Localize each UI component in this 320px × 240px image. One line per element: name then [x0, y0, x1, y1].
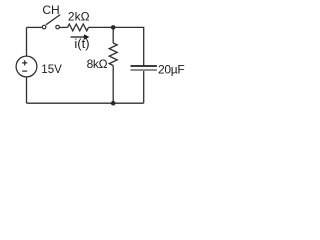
- bottom wire: [27, 102, 144, 104]
- current arrow i(t) head: [84, 34, 90, 39]
- middle branch top lead: [112, 27, 114, 43]
- source plus sign: [22, 60, 27, 65]
- wire resistor to top-right corner, down to capacitor top plate: [89, 27, 144, 65]
- left wire above source: [26, 27, 28, 56]
- left wire below source: [26, 77, 28, 104]
- resistor 2kOhm zigzag: [68, 24, 89, 31]
- svg-text:15V: 15V: [41, 64, 62, 76]
- capacitor bottom plate: [131, 69, 157, 71]
- current arrow i(t) shaft: [71, 36, 85, 38]
- voltage source circle: [16, 56, 37, 77]
- svg-text:CH: CH: [42, 3, 59, 17]
- svg-text:8kΩ: 8kΩ: [87, 57, 108, 71]
- source minus sign: [22, 70, 27, 72]
- wire capacitor bottom plate to bottom-right corner: [143, 71, 145, 103]
- switch contact left: [42, 25, 46, 29]
- capacitor top plate: [131, 65, 157, 67]
- wire top-left corner to switch left contact: [27, 26, 43, 28]
- svg-text:i(t): i(t): [74, 36, 89, 51]
- svg-text:2kΩ: 2kΩ: [68, 9, 90, 23]
- junction dot bottom node: [111, 101, 116, 106]
- resistor 8kOhm zigzag: [109, 43, 117, 66]
- middle branch bottom lead: [112, 66, 114, 104]
- switch contact right: [56, 25, 60, 29]
- wire switch right contact to resistor R1: [60, 26, 68, 28]
- svg-text:20µF: 20µF: [158, 62, 184, 76]
- switch blade: [46, 15, 60, 25]
- junction dot top node: [111, 25, 116, 30]
